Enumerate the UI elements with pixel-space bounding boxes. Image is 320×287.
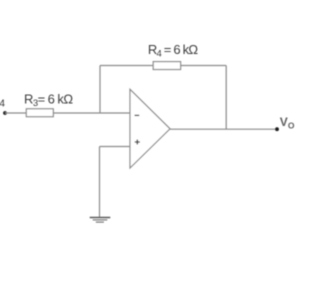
wire ground vertical — [99, 147, 101, 218]
wire R3 to op-amp inverting input — [53, 112, 130, 114]
wire op-amp output — [170, 128, 277, 130]
wire feedback right vertical down to output — [225, 66, 227, 130]
node Vo output terminal dot — [275, 127, 279, 131]
wire feedback top left horizontal to R4 — [100, 65, 153, 67]
op-amp U1 triangle — [130, 89, 170, 168]
op-amp plus sign — [135, 141, 140, 143]
node V4 input terminal dot — [3, 111, 7, 115]
op-amp minus sign — [135, 114, 140, 116]
svg-text:R4 = 6 kΩ: R4 = 6 kΩ — [148, 42, 198, 60]
wire input node to R3 — [5, 112, 27, 114]
wire feedback tap vertical up from input wire — [99, 66, 101, 114]
ground symbol — [90, 217, 111, 219]
wire R4 to right feedback corner — [181, 65, 227, 67]
wire op-amp non-inverting input horizontal — [100, 146, 131, 148]
svg-text:R3= 6 kΩ: R3= 6 kΩ — [24, 91, 73, 109]
resistor R4 body — [153, 62, 180, 70]
svg-text:4: 4 — [0, 99, 5, 110]
resistor R3 body — [26, 109, 53, 117]
